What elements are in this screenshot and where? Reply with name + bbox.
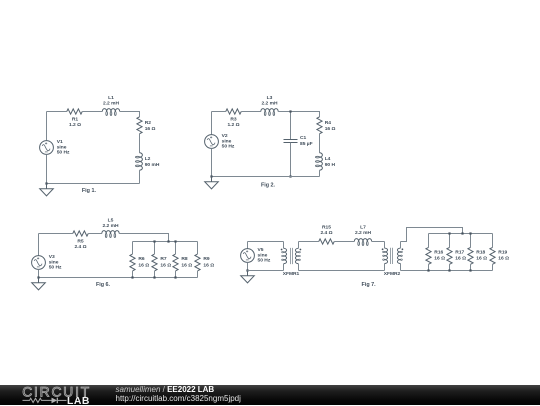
svg-text:R18: R18 xyxy=(476,250,485,256)
node junction Fig6 bottom-left xyxy=(37,276,39,278)
resistor R2 xyxy=(137,117,142,134)
svg-text:C1: C1 xyxy=(300,135,307,141)
wire Fig1 left top segment xyxy=(46,112,48,141)
svg-text:R3: R3 xyxy=(230,116,237,122)
svg-text:L7: L7 xyxy=(360,224,366,230)
node junctions Fig7 bottom bus xyxy=(427,269,429,271)
logo diode xyxy=(52,398,58,404)
wire L3 to top-right corner xyxy=(278,112,319,117)
svg-text:R6: R6 xyxy=(138,256,145,262)
wire Fig2 left top segment xyxy=(211,112,213,135)
wire C1 to bottom xyxy=(290,143,292,177)
phase dot XFMR2 primary xyxy=(382,248,384,250)
svg-text:R15: R15 xyxy=(322,225,331,231)
svg-text:85 µF: 85 µF xyxy=(300,141,313,147)
footer line 1: author / title xyxy=(116,385,215,394)
svg-text:V2: V2 xyxy=(222,133,228,139)
svg-text:16 Ω: 16 Ω xyxy=(138,262,149,268)
node junction V5 bottom xyxy=(246,269,248,271)
transformer XFMR1 core xyxy=(291,248,293,264)
node junctions Fig7 top bus xyxy=(448,232,450,234)
svg-text:50 Hz: 50 Hz xyxy=(57,150,70,156)
node junction Fig2 bottom-left xyxy=(210,175,212,177)
svg-text:R16: R16 xyxy=(434,250,443,256)
transformer XFMR2 core xyxy=(391,248,393,264)
ground Fig1 xyxy=(40,184,54,196)
wire L5 to feed drop xyxy=(119,234,168,242)
resistor R6 xyxy=(132,242,134,255)
wire Fig7 bottom primary side xyxy=(248,270,284,272)
svg-text:16 Ω: 16 Ω xyxy=(160,262,171,268)
svg-text:sine: sine xyxy=(57,144,67,150)
svg-text:Fig 1.: Fig 1. xyxy=(82,188,97,194)
svg-text:2.2 mH: 2.2 mH xyxy=(355,230,372,236)
transformer XFMR2 secondary xyxy=(397,248,400,263)
resistor R3 xyxy=(226,109,242,114)
node junction Fig1 bottom-left xyxy=(45,182,47,184)
svg-text:2.2 mH: 2.2 mH xyxy=(102,223,119,229)
inductor L4 xyxy=(320,153,323,170)
resistor R8 xyxy=(175,242,177,255)
wire V1 to bottom xyxy=(46,154,48,183)
svg-text:16 Ω: 16 Ω xyxy=(498,256,509,262)
wire V2 to bottom xyxy=(211,148,213,176)
svg-text:16 Ω: 16 Ω xyxy=(325,126,336,132)
wire L4 to bottom-right corner xyxy=(319,170,321,176)
wire Fig6 top-left to R5 xyxy=(39,233,73,235)
svg-text:90 H: 90 H xyxy=(325,162,336,168)
resistor R7 xyxy=(154,242,156,255)
wire Fig1 bottom xyxy=(47,183,140,185)
wire R5 to L5 xyxy=(88,233,102,235)
svg-text:V1: V1 xyxy=(57,139,63,145)
svg-text:sine: sine xyxy=(258,252,268,258)
svg-text:16 Ω: 16 Ω xyxy=(476,256,487,262)
svg-text:Fig 2.: Fig 2. xyxy=(261,182,276,188)
capacitor C1 xyxy=(284,140,298,143)
phase dot XFMR1 primary xyxy=(281,249,283,251)
wire Fig6 bottom bus xyxy=(39,277,198,279)
svg-text:2.2 mH: 2.2 mH xyxy=(103,101,120,107)
wire R1 to L1 xyxy=(82,111,102,113)
svg-text:sine: sine xyxy=(49,259,59,265)
resistor R5 xyxy=(73,231,89,236)
node junction C1 bottom xyxy=(289,175,291,177)
resistor R9 xyxy=(197,242,199,255)
wire R2 to L2 xyxy=(139,134,141,153)
svg-text:L5: L5 xyxy=(108,217,114,223)
inductor L7 xyxy=(354,239,371,242)
CircuitLab logo xyxy=(18,382,128,406)
wire Fig2 top-left to R3 xyxy=(212,111,226,113)
svg-text:50 Hz: 50 Hz xyxy=(49,265,62,271)
inductor L2 xyxy=(140,153,143,170)
svg-text:R19: R19 xyxy=(498,250,507,256)
svg-text:2.4 Ω: 2.4 Ω xyxy=(320,230,332,236)
svg-text:Fig 6.: Fig 6. xyxy=(96,282,111,288)
voltage source V5 xyxy=(241,249,255,263)
phase dot XFMR1 secondary xyxy=(300,249,302,251)
phase dot XFMR2 secondary xyxy=(402,248,404,250)
svg-text:XFMR2: XFMR2 xyxy=(384,271,401,277)
svg-text:16 Ω: 16 Ω xyxy=(455,256,466,262)
ground Fig7 xyxy=(241,271,255,283)
resistor R18 xyxy=(470,234,472,248)
svg-text:90 mH: 90 mH xyxy=(145,162,160,168)
wire R3 to L3 xyxy=(241,111,261,113)
footer line 2: url xyxy=(116,394,241,403)
node junctions Fig6 top bus xyxy=(153,240,155,242)
wire Fig6 left top segment xyxy=(38,234,40,256)
svg-text:R5: R5 xyxy=(77,238,84,244)
svg-text:Fig 7.: Fig 7. xyxy=(362,282,377,288)
node junction C1 top xyxy=(289,110,291,112)
svg-text:R9: R9 xyxy=(203,256,210,262)
svg-text:1.2 Ω: 1.2 Ω xyxy=(227,122,239,128)
resistor R19 xyxy=(492,234,494,248)
inductor L3 xyxy=(261,109,278,112)
svg-text:1.2 Ω: 1.2 Ω xyxy=(69,122,81,128)
svg-text:2.2 mH: 2.2 mH xyxy=(261,101,278,107)
wire R15 to L7 xyxy=(334,241,354,243)
wire R4 to L4 xyxy=(319,134,321,153)
voltage source V1 xyxy=(40,141,54,155)
svg-text:R2: R2 xyxy=(145,120,152,126)
svg-text:V3: V3 xyxy=(49,254,55,260)
wire XFMR2 secondary top rail to load xyxy=(401,228,463,242)
svg-text:L4: L4 xyxy=(325,156,331,162)
svg-text:V5: V5 xyxy=(258,247,264,253)
svg-text:50 Hz: 50 Hz xyxy=(258,258,271,264)
resistor R17 xyxy=(449,234,451,248)
svg-text:16 Ω: 16 Ω xyxy=(181,262,192,268)
resistor R4 xyxy=(317,117,322,134)
wire Fig7 load top bus xyxy=(429,233,493,235)
transformer XFMR1 secondary xyxy=(295,248,298,263)
transformer XFMR1 primary xyxy=(283,242,285,249)
svg-text:sine: sine xyxy=(222,138,232,144)
svg-text:16 Ω: 16 Ω xyxy=(434,256,445,262)
wire L1 to top-right corner xyxy=(120,112,140,117)
wire V5 top segment xyxy=(247,242,249,249)
resistor R16 xyxy=(428,234,430,248)
svg-text:R8: R8 xyxy=(181,256,188,262)
ground Fig6 xyxy=(32,278,46,290)
svg-text:R7: R7 xyxy=(160,256,167,262)
wire L7 to XFMR2 xyxy=(372,241,385,243)
voltage source V2 xyxy=(205,135,219,149)
svg-text:XFMR1: XFMR1 xyxy=(283,271,300,277)
svg-text:2.4 Ω: 2.4 Ω xyxy=(74,244,86,250)
wire V5 to bottom xyxy=(247,262,249,270)
resistor R15 xyxy=(319,239,335,244)
svg-text:R17: R17 xyxy=(455,250,464,256)
wire Fig2 middle branch top xyxy=(290,112,292,140)
transformer XFMR2 primary xyxy=(384,242,386,249)
svg-text:16 Ω: 16 Ω xyxy=(203,262,214,268)
inductor L1 xyxy=(102,109,119,112)
wire XFMR1 secondary bottom to XFMR2 xyxy=(299,270,385,272)
wire L2 to bottom-right corner xyxy=(139,170,141,183)
wire Fig2 bottom xyxy=(212,176,320,178)
ground Fig2 xyxy=(205,177,219,189)
svg-text:L3: L3 xyxy=(267,95,273,101)
wire Fig7 load bottom bus xyxy=(401,270,493,272)
wire V5 top to XFMR1 xyxy=(248,241,284,243)
resistor R1 xyxy=(67,109,83,114)
wire Fig6 top bus xyxy=(133,241,198,243)
svg-text:L1: L1 xyxy=(108,95,114,101)
logo wire with resistor xyxy=(23,398,52,402)
wire Fig1 top-left to R1 xyxy=(47,111,67,113)
wire V3 to bottom xyxy=(38,269,40,277)
svg-text:L2: L2 xyxy=(145,156,151,162)
svg-text:R1: R1 xyxy=(72,116,79,122)
wire XFMR1 secondary top to R15 xyxy=(299,241,319,243)
footer bar xyxy=(0,385,540,406)
svg-text:50 Hz: 50 Hz xyxy=(222,144,235,150)
node junctions Fig6 bottom bus xyxy=(131,276,133,278)
svg-text:R4: R4 xyxy=(325,120,332,126)
inductor L5 xyxy=(102,231,119,234)
voltage source V3 xyxy=(32,256,46,270)
svg-text:16 Ω: 16 Ω xyxy=(145,126,156,132)
